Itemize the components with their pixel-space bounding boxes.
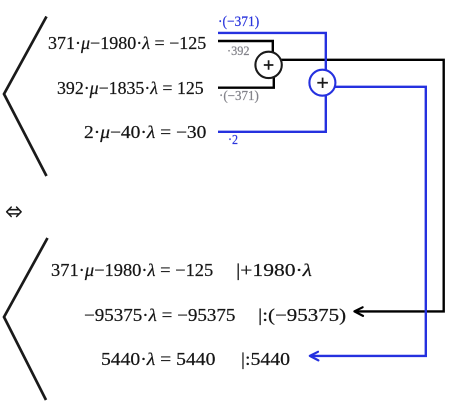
wire: adder S2 output to blue arrow down right side <box>312 87 426 356</box>
multiplier label ·2 blue below eq3 wire <box>228 134 238 148</box>
adder S2 (blue summing junction) <box>309 70 335 96</box>
row operation |+1980·λ <box>236 261 312 279</box>
adder S1 (black summing junction) <box>255 52 281 78</box>
equation 1 of top system <box>48 34 206 52</box>
row operation |:(-95375) <box>258 306 346 324</box>
multiplier label ·(-371) gray below eq2 wire <box>219 89 259 103</box>
equation 3 of top system <box>84 123 206 141</box>
wire: adder S1 output to black arrow down right side <box>268 60 444 312</box>
wire: eq1 times (-371) (blue) and eq3 times 2 (blue) into adder S2 <box>218 33 326 132</box>
equivalence arrow (drawn double arrow) <box>7 207 21 216</box>
arrowhead: black arrow into second bottom equation <box>354 307 363 316</box>
row operation |:5440 <box>241 350 290 368</box>
brace: top equation system <box>4 17 47 177</box>
multiplier label ·(-371) blue above eq1 wire <box>218 15 259 30</box>
wire: eq1 times 392 (black) into adder S1 <box>218 41 273 60</box>
equation 2 of bottom system <box>84 306 235 324</box>
equation 3 of bottom system <box>101 350 215 368</box>
wire: eq2 times (-371) (black) into adder S1 <box>218 70 274 88</box>
arrowhead: blue arrow into third bottom equation <box>310 352 319 361</box>
brace: bottom equation system <box>4 238 48 400</box>
equation 2 of top system <box>57 79 204 97</box>
equation 1 of bottom system <box>51 261 213 279</box>
multiplier label ·392 gray below eq1 wire <box>227 44 250 57</box>
